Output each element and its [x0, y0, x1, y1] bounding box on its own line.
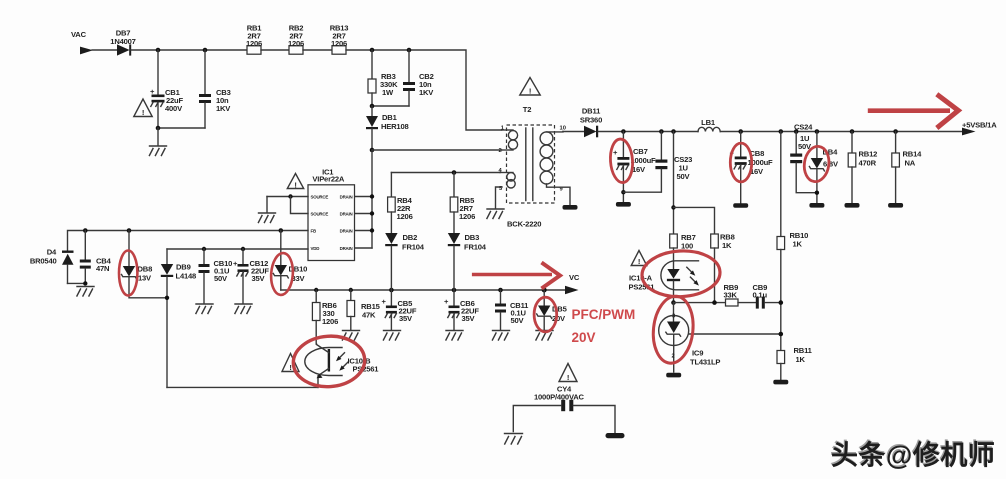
ground DB4 bar — [809, 203, 824, 208]
svg-text:1206: 1206 — [322, 317, 338, 326]
ground — [258, 213, 275, 223]
svg-text:SOURCE: SOURCE — [311, 195, 329, 200]
svg-text:DB2: DB2 — [403, 233, 418, 242]
resistor RB14 — [892, 132, 922, 203]
wire drain bus — [355, 150, 375, 248]
warning triangle CY4 — [559, 364, 577, 383]
svg-text:SOURCE: SOURCE — [311, 212, 329, 217]
node VC arrow — [565, 273, 580, 294]
svg-text:PFC/PWM: PFC/PWM — [572, 307, 636, 322]
svg-text:T2: T2 — [523, 105, 531, 114]
svg-text:2: 2 — [499, 148, 502, 154]
svg-text:400V: 400V — [165, 104, 183, 113]
opto-isolator IC10-B PS2561 transistor side — [305, 344, 379, 387]
resistor RB7 — [670, 233, 696, 269]
ground — [383, 331, 400, 341]
svg-text:FR104: FR104 — [464, 243, 487, 252]
capacitor CB12 electrolytic — [233, 249, 269, 303]
ground RB12 bar — [845, 203, 860, 208]
svg-text:DB3: DB3 — [465, 233, 480, 242]
red circle DB8 — [119, 251, 137, 296]
capacitor CS24 — [790, 123, 817, 193]
wire VDD line — [167, 247, 308, 251]
ground CY4 right bar — [606, 433, 625, 438]
warning triangle above T2 — [520, 78, 540, 96]
watermark — [830, 439, 995, 470]
capacitor CB8 1000uF electrolytic — [730, 132, 774, 204]
svg-text:DRAIN: DRAIN — [340, 229, 353, 234]
svg-text:!: ! — [294, 181, 296, 190]
ground RB11 bar — [773, 380, 788, 385]
svg-text:VDD: VDD — [311, 246, 320, 251]
ground — [342, 331, 359, 341]
wire rail to transformer pin1 — [346, 50, 502, 130]
svg-text:L4148: L4148 — [176, 272, 197, 281]
svg-text:100: 100 — [681, 242, 693, 251]
ground CB7 bar — [616, 202, 631, 207]
svg-text:33K: 33K — [724, 290, 738, 299]
capacitor CB7 1000uF electrolytic — [613, 132, 656, 202]
svg-text:20V: 20V — [572, 330, 596, 345]
diode DB2 FR104 — [385, 233, 425, 290]
svg-text:1206: 1206 — [459, 212, 475, 221]
wire secondary rail — [621, 129, 698, 134]
ground CY4 left — [505, 434, 523, 445]
red circle IC10-B — [292, 334, 367, 389]
resistor RB5 — [450, 173, 475, 234]
node VAC input arrow — [71, 30, 117, 54]
capacitor CS23 — [623, 132, 692, 193]
svg-text:DB11: DB11 — [582, 107, 601, 116]
svg-text:HER108: HER108 — [381, 122, 409, 131]
svg-text:35V: 35V — [399, 314, 413, 323]
svg-text:LB1: LB1 — [701, 118, 716, 127]
wire top rail — [131, 49, 247, 51]
resistor RB4 — [388, 173, 413, 234]
svg-text:BR0540: BR0540 — [30, 257, 57, 266]
svg-text:13V: 13V — [138, 274, 152, 283]
svg-text:1KV: 1KV — [216, 104, 231, 113]
resistor RB3 — [368, 50, 398, 106]
inductor LB1 — [698, 118, 720, 132]
svg-text:1N4007: 1N4007 — [110, 37, 135, 46]
svg-text:!: ! — [289, 363, 291, 372]
warning triangle IC10-B — [282, 354, 299, 373]
ground T2 pin5 — [487, 209, 504, 219]
wire — [261, 49, 289, 51]
red circle IC9 — [650, 294, 696, 365]
svg-text:RB11: RB11 — [794, 346, 813, 355]
wire CB1-CB3 bottom — [156, 126, 205, 145]
diode DB7 1N4007 — [110, 29, 135, 56]
svg-text:VIPer22A: VIPer22A — [312, 175, 344, 184]
ground T2 pin9 bar — [563, 205, 578, 210]
red circle DB10 — [270, 252, 294, 295]
resistor RB9 — [724, 283, 756, 306]
warning triangle — [134, 99, 152, 117]
svg-text:VAC: VAC — [71, 30, 87, 39]
red note PFC/PWM 20V — [572, 307, 636, 345]
svg-text:DB9: DB9 — [176, 263, 191, 272]
svg-text:470R: 470R — [859, 159, 877, 168]
svg-text:+: + — [382, 297, 387, 306]
svg-text:+: + — [233, 259, 238, 268]
capacitor CB10 — [199, 249, 233, 303]
ground — [492, 331, 509, 341]
ground — [196, 304, 213, 314]
node — [370, 104, 375, 109]
red circle DB4 — [802, 145, 831, 183]
svg-text:0.1u: 0.1u — [753, 290, 768, 299]
svg-text:35V: 35V — [252, 274, 266, 283]
opto-isolator IC10-A PS2561 LED side — [629, 261, 699, 303]
svg-text:头条@修机师: 头条@修机师 — [830, 439, 994, 469]
ground — [235, 304, 252, 314]
wire — [303, 49, 332, 51]
red circle DB5 — [534, 297, 557, 332]
svg-text:!: ! — [529, 87, 531, 96]
wire opto cathode node — [671, 300, 725, 305]
resistor RB13 — [330, 24, 349, 55]
ground — [77, 287, 94, 297]
warning triangle IC10-A — [631, 251, 647, 267]
svg-text:1K: 1K — [722, 241, 732, 250]
svg-text:PS2561: PS2561 — [353, 365, 380, 374]
capacitor CB6 electrolytic — [444, 290, 479, 330]
resistor RB15 — [347, 290, 381, 330]
red circle CB8 — [730, 143, 751, 182]
wire RB7/RB8 feed — [671, 132, 714, 235]
svg-text:+5VSB/1A: +5VSB/1A — [962, 121, 997, 130]
resistor RB8 — [711, 233, 735, 303]
capacitor CB2 — [372, 50, 434, 106]
svg-text:50V: 50V — [677, 172, 691, 181]
resistor RB10 — [777, 132, 808, 351]
capacitor CY4 — [513, 385, 615, 433]
red circle IC10-A — [641, 249, 721, 299]
svg-text:!: ! — [567, 373, 569, 382]
capacitor CB1 400V electrolytic — [150, 50, 183, 128]
red arrow +5VSB — [868, 94, 959, 128]
warning triangle — [287, 174, 303, 190]
svg-text:35V: 35V — [462, 314, 476, 323]
svg-text:1K: 1K — [796, 355, 806, 364]
wire VC rail — [281, 288, 566, 293]
svg-text:BCK-2220: BCK-2220 — [507, 220, 541, 229]
svg-text:RB14: RB14 — [903, 150, 923, 159]
svg-text:FR104: FR104 — [402, 243, 425, 252]
svg-text:1000P/400VAC: 1000P/400VAC — [534, 393, 585, 402]
svg-text:50V: 50V — [214, 274, 228, 283]
capacitor CB9 — [753, 283, 781, 309]
svg-text:DB1: DB1 — [382, 113, 398, 122]
svg-text:1206: 1206 — [246, 39, 262, 48]
wire FB line — [68, 228, 309, 250]
svg-text:47K: 47K — [362, 311, 376, 320]
svg-text:1K: 1K — [793, 240, 803, 249]
svg-text:1206: 1206 — [331, 39, 347, 48]
wire secondary rail right — [720, 129, 963, 134]
svg-text:1206: 1206 — [397, 212, 413, 221]
svg-text:1KV: 1KV — [419, 88, 434, 97]
zener DB8 13V — [122, 231, 168, 298]
ground — [536, 331, 553, 341]
resistor RB12 — [848, 132, 877, 203]
svg-text:NA: NA — [905, 159, 916, 168]
svg-text:IC9: IC9 — [692, 349, 703, 358]
svg-text:FB: FB — [311, 229, 316, 234]
svg-text:1000uF: 1000uF — [631, 156, 657, 165]
diode D4 BR0540 — [30, 248, 85, 284]
svg-text:3: 3 — [672, 314, 676, 320]
ground IC9 bar — [666, 373, 681, 378]
wire drain to T2 pin2 — [370, 148, 502, 153]
diode DB3 FR104 — [448, 233, 487, 290]
capacitor CB3 — [199, 50, 231, 128]
svg-text:6.8V: 6.8V — [823, 160, 839, 169]
capacitor CB11 — [495, 290, 529, 330]
red circle CB7 — [609, 138, 634, 183]
resistor RB11 — [777, 346, 813, 380]
svg-text:50V: 50V — [511, 316, 525, 325]
ground — [149, 146, 166, 156]
svg-text:1206: 1206 — [288, 39, 304, 48]
svg-text:DRAIN: DRAIN — [340, 195, 353, 200]
svg-text:1W: 1W — [382, 88, 394, 97]
transformer T2 BCK-2220 — [496, 105, 571, 229]
diode DB1 HER108 — [366, 106, 409, 150]
ground — [446, 331, 463, 341]
svg-text:+: + — [444, 297, 449, 306]
ground CB8 bar — [733, 203, 748, 208]
svg-text:D4: D4 — [47, 248, 57, 257]
svg-text:DRAIN: DRAIN — [340, 212, 353, 217]
zener DB4 6.8V — [809, 132, 839, 203]
svg-text:2: 2 — [672, 354, 675, 360]
svg-text:47N: 47N — [96, 264, 109, 273]
svg-text:TL431LP: TL431LP — [690, 358, 720, 367]
svg-text:16V: 16V — [632, 165, 646, 174]
resistor RB2 — [288, 24, 304, 55]
svg-text:CS24: CS24 — [794, 123, 813, 132]
svg-text:!: ! — [638, 257, 640, 266]
zener DB5 20V — [537, 290, 568, 330]
diode DB11 SR360 — [563, 107, 623, 138]
wire IC1 source pins — [267, 194, 308, 213]
wire to T2 pin4 — [391, 170, 500, 175]
shunt regulator IC9 TL431LP — [659, 303, 781, 372]
zener DB10 33V — [273, 231, 307, 291]
ground RB14 bar — [888, 203, 903, 208]
op-amp/controller IC1 VIPer22A — [308, 167, 355, 260]
capacitor CB4 — [80, 231, 112, 286]
node junction dots top rail — [156, 48, 412, 53]
node +5VSB/1A output arrow — [962, 121, 997, 136]
capacitor CB5 electrolytic — [382, 290, 417, 330]
svg-text:DRAIN: DRAIN — [340, 246, 353, 251]
svg-text:!: ! — [142, 108, 144, 117]
svg-text:+: + — [613, 148, 618, 157]
svg-text:10: 10 — [560, 125, 566, 131]
wire emitter return — [167, 386, 318, 388]
svg-text:CB7: CB7 — [633, 147, 648, 156]
red arrow VC — [472, 263, 560, 289]
svg-text:VC: VC — [569, 273, 580, 282]
svg-text:DB8: DB8 — [138, 265, 153, 274]
resistor RB6 — [312, 290, 338, 344]
diode DB9 L4148 — [161, 249, 196, 387]
resistor RB1 — [246, 24, 262, 55]
svg-text:SR360: SR360 — [580, 116, 602, 125]
svg-text:20V: 20V — [552, 314, 566, 323]
svg-text:RB12: RB12 — [859, 150, 878, 159]
